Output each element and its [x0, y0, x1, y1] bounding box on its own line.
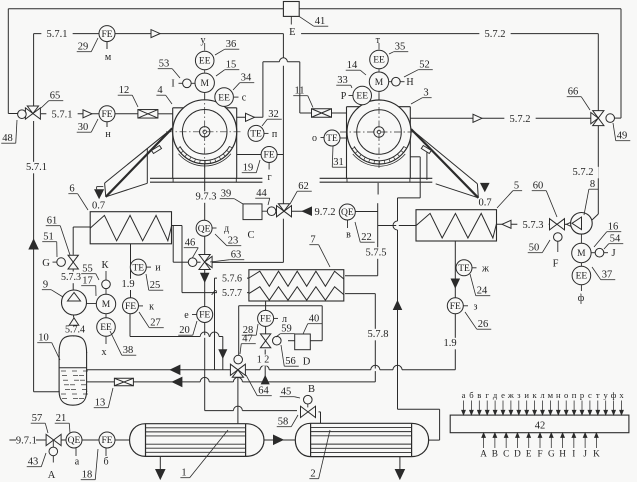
compressor 4 sump arc	[180, 146, 230, 160]
svg-text:ф: ф	[578, 293, 585, 304]
actuator circle 47 of valve 64	[234, 355, 243, 364]
wire HX2 return path	[398, 408, 440, 410]
flow element FE29	[99, 26, 115, 42]
svg-text:I: I	[572, 449, 575, 459]
node 5.7.2 label mid	[504, 114, 535, 126]
evaporator 2 shell	[311, 423, 412, 456]
svg-text:ЕЕ: ЕЕ	[373, 56, 385, 66]
wire FE27 branch horizontal	[129, 314, 131, 337]
flow arrow suction into vessel	[170, 365, 180, 374]
gate valve 11	[312, 109, 332, 118]
svg-text:у: у	[201, 35, 206, 46]
svg-text:0.7: 0.7	[478, 198, 491, 209]
svg-text:16: 16	[608, 222, 619, 233]
svg-text:5.7.2: 5.7.2	[485, 29, 506, 40]
heat exchanger 6 coil	[90, 212, 171, 244]
actuator circle 50 F	[554, 233, 563, 242]
svg-text:5.7.6: 5.7.6	[222, 274, 242, 285]
svg-text:53: 53	[159, 59, 170, 70]
wire valve 58 to HX2	[319, 411, 321, 413]
wire valve11 to comp3 suction	[332, 112, 347, 114]
slide discharge arrow comp4	[95, 190, 104, 198]
svg-text:33: 33	[337, 75, 348, 86]
flow arrow branch drop	[219, 350, 227, 358]
controller box 42	[450, 415, 629, 433]
svg-text:5.7.1: 5.7.1	[47, 29, 68, 40]
wire HX1 drain	[159, 456, 161, 469]
node 1.9 label right	[440, 338, 460, 350]
3-way valve 62	[277, 206, 285, 217]
svg-text:м: м	[105, 52, 112, 63]
wire 9.7.1 line bottom	[9, 439, 16, 441]
svg-text:55: 55	[82, 264, 93, 275]
svg-text:FE: FE	[101, 436, 112, 446]
svg-text:а: а	[75, 457, 80, 468]
svg-text:G: G	[42, 258, 50, 269]
motor M14	[369, 72, 388, 91]
flow arrow comp4 discharge	[246, 113, 255, 121]
vessel 10 liquid surface	[59, 367, 87, 369]
wire FE20 column	[204, 270, 206, 411]
svg-text:56: 56	[285, 356, 296, 367]
svg-text:E: E	[526, 449, 532, 459]
svg-text:FE: FE	[199, 311, 210, 321]
wire 5.7.1 drop to valve 65	[33, 34, 35, 106]
svg-text:66: 66	[568, 87, 579, 98]
wire top loop from controller E line left side	[8, 8, 283, 10]
svg-text:39: 39	[221, 189, 232, 200]
wire branch drop with arrow	[222, 337, 224, 370]
svg-text:с: с	[242, 93, 247, 104]
compressor unit 4 casing	[173, 107, 237, 109]
svg-text:17: 17	[82, 276, 93, 287]
svg-text:5.7.3: 5.7.3	[61, 272, 81, 283]
wire valve11 drop	[299, 62, 301, 113]
svg-text:п: п	[572, 390, 577, 400]
quality element QE22	[339, 204, 355, 220]
wire right frame drop to circle 49	[620, 9, 622, 118]
svg-text:т: т	[596, 390, 600, 400]
compressor 4 rotor circles	[173, 100, 237, 164]
svg-text:В: В	[308, 384, 315, 395]
svg-text:М: М	[102, 300, 111, 310]
svg-text:61: 61	[47, 216, 58, 227]
wire HX5 right to valve 60	[497, 223, 549, 225]
svg-text:9.7.3: 9.7.3	[196, 192, 217, 203]
electric element EE38	[97, 318, 116, 337]
electric element EE37	[572, 266, 591, 285]
quality element QE23	[196, 220, 212, 236]
wire comp3 drain junction vertical	[377, 203, 379, 276]
svg-text:л: л	[540, 390, 545, 400]
flow element FE20	[197, 307, 213, 323]
svg-text:г: г	[485, 390, 489, 400]
svg-text:48: 48	[2, 133, 13, 144]
3-way valve 66	[593, 111, 604, 119]
svg-text:F: F	[553, 259, 559, 270]
svg-text:49: 49	[617, 131, 628, 142]
compressor 3 baseplate	[320, 177, 433, 179]
wire line 5.7.1 top horizontal	[34, 33, 284, 35]
gate valve 13	[114, 378, 133, 386]
svg-text:5.7.7: 5.7.7	[222, 288, 242, 299]
temperature element TE24	[456, 260, 472, 276]
motor M15	[195, 73, 214, 92]
flow arrow 5.7.8 up	[394, 301, 402, 310]
svg-text:62: 62	[298, 181, 309, 192]
svg-text:н: н	[105, 129, 111, 140]
wire 5.7.1 mid from valve65 to comp4	[41, 113, 138, 115]
svg-text:12: 12	[119, 85, 130, 96]
svg-text:ТЕ: ТЕ	[458, 264, 470, 274]
svg-text:27: 27	[150, 318, 161, 329]
3-way valve 65	[25, 108, 33, 119]
compressor 3 crosshair	[340, 131, 417, 133]
wire liquid line to vessel via valve13	[87, 381, 376, 383]
flow arrow HX1 drain	[156, 470, 165, 480]
temperature element TE32	[248, 125, 264, 141]
svg-text:24: 24	[477, 286, 488, 297]
node 9.7.3 label	[190, 191, 221, 203]
svg-text:64: 64	[258, 386, 269, 397]
wire 5.7.7 row	[182, 292, 249, 294]
svg-text:FE: FE	[101, 110, 112, 120]
svg-text:36: 36	[226, 39, 237, 50]
svg-text:5.7.8: 5.7.8	[368, 329, 389, 340]
svg-text:A: A	[480, 449, 487, 459]
compressor 3 sump arc	[354, 146, 404, 160]
wire comp3 discharge 5.7.2	[410, 117, 590, 119]
flow arrow up 5.7.1 column	[29, 240, 38, 250]
svg-text:1 2: 1 2	[257, 355, 270, 366]
wire HX6 left port to valve 61	[73, 226, 91, 228]
node c dash	[234, 96, 239, 98]
svg-text:и: и	[155, 263, 161, 274]
wire riser 1.2 valve59 to liquid line	[264, 350, 266, 355]
compressor 4 slide chute	[105, 128, 173, 183]
svg-text:47: 47	[242, 334, 253, 345]
svg-text:21: 21	[56, 413, 67, 424]
svg-text:ЕЕ: ЕЕ	[199, 57, 211, 67]
flow element FE18	[99, 432, 115, 448]
actuator circle 46 of valve 63	[188, 258, 197, 267]
slide discharge arrow comp3	[481, 183, 489, 191]
wire TE25-FE27 stub	[130, 290, 132, 298]
svg-text:QE: QE	[68, 436, 81, 446]
svg-text:38: 38	[123, 345, 134, 356]
node 5.7.5 label	[360, 247, 391, 259]
compressor 3 rotor circles	[347, 100, 411, 164]
electric element EE36	[195, 51, 214, 70]
flow arrow HX1 out	[274, 435, 284, 444]
node 9.7.2 label	[309, 207, 340, 219]
svg-text:FE: FE	[101, 30, 112, 40]
svg-text:п: п	[272, 129, 278, 140]
wire HX7 row1 right port	[345, 275, 378, 277]
svg-text:д: д	[493, 390, 498, 400]
flow element FE19	[261, 147, 277, 163]
wire FE18 to HX1	[115, 439, 130, 441]
svg-text:59: 59	[281, 324, 292, 335]
svg-text:8: 8	[590, 179, 595, 190]
svg-text:х: х	[619, 390, 624, 400]
svg-text:D: D	[514, 449, 521, 459]
wire FE28 to valve 59	[265, 327, 267, 334]
wire FE26 drop line 1.9	[454, 241, 456, 370]
svg-text:D: D	[303, 357, 311, 368]
svg-text:х: х	[102, 347, 107, 358]
svg-text:3: 3	[423, 88, 428, 99]
actuator circle 56 of valve 59	[273, 336, 282, 345]
controller relay box E 41	[283, 2, 299, 17]
wire HX6 branch B to 5.7.7	[181, 226, 183, 293]
command circle H52	[392, 77, 401, 86]
svg-text:FE: FE	[260, 315, 271, 325]
svg-text:11: 11	[294, 86, 304, 97]
svg-text:Р: Р	[341, 91, 347, 102]
svg-text:1.9: 1.9	[443, 338, 456, 349]
motor M17	[96, 294, 115, 313]
flow arrow 9.7.2	[303, 207, 312, 215]
actuator circle 45 B	[304, 395, 313, 404]
temperature element TE25	[130, 259, 146, 275]
svg-text:р: р	[580, 390, 584, 400]
svg-text:H: H	[559, 449, 566, 459]
svg-text:1.9: 1.9	[121, 279, 134, 290]
svg-text:ЕЕ: ЕЕ	[356, 92, 368, 102]
solenoid box D 40	[295, 334, 311, 350]
svg-text:57: 57	[32, 413, 43, 424]
wire valve12 to comp4	[158, 113, 173, 115]
svg-text:К: К	[101, 260, 109, 271]
wire QE22 to drain junction	[355, 211, 377, 213]
svg-text:K: K	[593, 449, 600, 459]
motor M16	[572, 243, 591, 262]
flow arrow into 5.7.3 left	[502, 220, 511, 228]
vessel 10 liquid hatch	[61, 370, 66, 372]
svg-text:7: 7	[310, 235, 315, 246]
svg-text:А: А	[48, 470, 56, 481]
svg-text:50: 50	[529, 243, 540, 254]
svg-text:51: 51	[43, 232, 54, 243]
node 5.7.7 label	[217, 288, 247, 299]
wire comp3 economizer port	[410, 156, 420, 158]
svg-text:5: 5	[514, 181, 519, 192]
command circle K55	[102, 280, 111, 289]
svg-text:с: с	[588, 390, 592, 400]
shutoff valve 58	[301, 406, 309, 417]
svg-text:д: д	[224, 224, 229, 235]
wire D enclosure loop	[310, 340, 322, 342]
node 1.9 label left	[118, 279, 138, 291]
node 5.7.8 label	[362, 329, 393, 341]
svg-text:31: 31	[333, 157, 344, 168]
flow element FE30	[99, 106, 115, 122]
svg-text:6: 6	[69, 184, 74, 195]
heat exchanger 7 coil	[249, 270, 344, 301]
svg-text:о: о	[312, 133, 317, 144]
wire box C to circle 44	[262, 210, 267, 212]
oil separator vessel 10	[59, 352, 87, 392]
wire HX7 row2 right port to drop	[345, 293, 375, 295]
svg-text:58: 58	[278, 417, 289, 428]
svg-text:H: H	[406, 77, 413, 88]
wire 5.7.6 row	[215, 277, 249, 279]
svg-text:I: I	[171, 79, 174, 90]
actuator circle 51 G	[57, 258, 66, 267]
solenoid box C 39	[243, 204, 262, 220]
svg-text:С: С	[247, 230, 254, 241]
svg-text:ф: ф	[611, 390, 617, 400]
svg-text:FE: FE	[264, 151, 275, 161]
actuator circle 44 of valve 62	[267, 207, 276, 216]
oil pump 8	[571, 213, 593, 235]
svg-text:в: в	[346, 230, 351, 241]
wire circle46 to valve63	[197, 261, 201, 263]
node 5.7.4 label	[60, 325, 90, 336]
wire suction line 1.9 to vessel	[87, 369, 456, 371]
flow arrow before FE30	[83, 110, 92, 118]
svg-text:9.7.1: 9.7.1	[16, 436, 37, 447]
wire left frame drop to valve 65	[7, 9, 9, 114]
temperature element TE31	[324, 130, 340, 146]
svg-text:QE: QE	[198, 224, 211, 234]
svg-text:J: J	[611, 248, 615, 259]
svg-text:2: 2	[310, 469, 315, 480]
flow element FE28	[258, 310, 274, 326]
flow arrow HX2 drain	[395, 470, 404, 480]
flow arrow below valve 63	[201, 273, 209, 282]
flow arrow comp3 discharge	[473, 114, 482, 122]
svg-text:B: B	[492, 449, 498, 459]
node m stub	[106, 42, 108, 49]
check triangle below pump 9	[69, 318, 79, 325]
svg-text:34: 34	[241, 73, 252, 84]
wire QE23 to valve 63	[204, 236, 206, 254]
actuator circle 43 A	[49, 447, 58, 456]
svg-text:9: 9	[43, 280, 48, 291]
svg-text:ТЕ: ТЕ	[250, 130, 262, 140]
svg-text:ТЕ: ТЕ	[326, 134, 338, 144]
evaporator 1 shell	[146, 424, 246, 457]
actuator circle 49 of valve 66	[606, 114, 615, 123]
svg-text:ЕЕ: ЕЕ	[576, 272, 588, 282]
svg-text:о: о	[564, 390, 568, 400]
svg-text:14: 14	[347, 60, 358, 71]
electric element EE33	[353, 86, 372, 105]
svg-text:43: 43	[28, 457, 39, 468]
svg-text:15: 15	[226, 60, 237, 71]
electric element EE34	[215, 88, 234, 107]
wire valve57 to QE21	[62, 439, 66, 441]
wire QE21 to FE18	[82, 439, 99, 441]
node 5.7.1 label mid	[46, 109, 77, 121]
wire 5.7.6 branch vertical	[214, 278, 216, 370]
svg-text:ж: ж	[481, 264, 489, 275]
svg-text:46: 46	[185, 238, 196, 249]
svg-text:у: у	[604, 390, 609, 400]
svg-text:13: 13	[95, 398, 106, 409]
svg-text:37: 37	[602, 270, 613, 281]
node 5.7.1 label vert	[21, 162, 52, 174]
wire FE19 line comp4 to vertical	[237, 154, 284, 156]
svg-text:54: 54	[610, 234, 621, 245]
wire comp4 discharge riser	[262, 62, 264, 118]
svg-text:9.7.2: 9.7.2	[315, 207, 336, 218]
wire HX6 right stub	[172, 225, 183, 227]
wire D enclosure to circle 47	[288, 340, 295, 342]
svg-text:J: J	[583, 449, 587, 459]
svg-text:22: 22	[361, 232, 372, 243]
svg-text:20: 20	[179, 325, 190, 336]
node 5.7.1 label top	[41, 29, 72, 40]
svg-text:4: 4	[157, 85, 163, 96]
compressor unit 3 casing	[347, 106, 411, 108]
svg-text:к: к	[149, 302, 154, 313]
svg-text:т: т	[376, 35, 381, 46]
svg-text:F: F	[537, 449, 542, 459]
svg-text:5.7.5: 5.7.5	[366, 248, 387, 259]
svg-text:FE: FE	[450, 302, 461, 312]
wire valve 64 drop to HX1	[237, 377, 239, 423]
svg-text:40: 40	[309, 314, 320, 325]
svg-text:М: М	[375, 78, 384, 88]
wire line 5.7.2 top horizontal	[301, 33, 598, 35]
wire HX6 branch A to circle 46	[172, 226, 174, 263]
svg-text:0.7: 0.7	[92, 201, 105, 212]
command circle J54	[595, 248, 604, 257]
wire HX1 to HX2 transfer	[264, 439, 295, 441]
node E stub	[290, 16, 292, 24]
wire 5.7.2 below valve 66 to pump 8	[597, 126, 599, 214]
wire valve60 to pump8	[565, 223, 571, 225]
node 5.7.3 label left	[56, 272, 86, 283]
svg-text:б: б	[469, 390, 474, 400]
compressor 3 slide chute	[411, 129, 477, 184]
svg-text:41: 41	[315, 16, 326, 27]
flow arrow below HX5	[451, 279, 459, 288]
flow arrow on 5.7.1	[151, 30, 160, 38]
flow arrow into pump8	[567, 221, 575, 229]
svg-text:з: з	[474, 302, 478, 313]
svg-text:м: м	[548, 390, 554, 400]
wire HX2 drain	[399, 457, 401, 470]
wire HX6 bottom to TE25	[130, 242, 132, 279]
wire top loop right of box E	[299, 8, 621, 10]
wire valve61 to pump9	[72, 270, 74, 272]
svg-text:45: 45	[281, 387, 292, 398]
wire 5.7.1 below valve 65 down	[33, 121, 35, 392]
svg-text:5.7.3: 5.7.3	[523, 220, 544, 231]
wire comp4 discharge horizontal	[237, 116, 263, 118]
svg-text:5.7.1: 5.7.1	[26, 162, 47, 173]
flow arrow liquid into vessel	[172, 377, 182, 386]
svg-text:н: н	[556, 390, 561, 400]
wire HX7 bottom to FE28	[265, 301, 267, 311]
svg-text:35: 35	[395, 42, 406, 53]
svg-text:ТЕ: ТЕ	[132, 263, 144, 273]
svg-text:QE: QE	[341, 208, 354, 218]
wire cross line y61.8 from comp4 discharge riser	[263, 61, 300, 63]
quality element QE21	[66, 432, 82, 448]
wire 5.7.8 riser	[397, 198, 399, 221]
svg-text:C: C	[503, 449, 509, 459]
wire FE20 line corner to valve 58	[205, 410, 297, 412]
wire comp3 drain	[377, 183, 379, 195]
svg-text:г: г	[267, 172, 271, 183]
wire into vessel bottom left	[34, 391, 60, 393]
node 5.7.2 label top	[479, 29, 510, 40]
